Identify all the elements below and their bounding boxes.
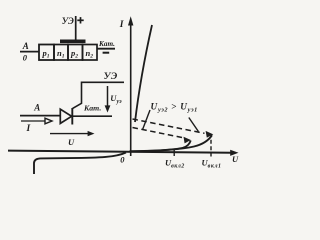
svg-text:U: U bbox=[232, 154, 239, 164]
cathode bar bbox=[71, 108, 73, 125]
tick at Uвкл2 bbox=[173, 150, 175, 156]
leader line to lower curve family bbox=[143, 110, 150, 130]
leader line to Uвкл1 knee bbox=[189, 118, 199, 132]
svg-text:А: А bbox=[22, 41, 29, 51]
p2 region box bbox=[68, 45, 83, 61]
upper dashed switching line bbox=[133, 119, 205, 133]
svg-text:I: I bbox=[119, 20, 124, 30]
svg-text:U: U bbox=[68, 137, 75, 147]
U axis bbox=[8, 151, 232, 153]
svg-text:А: А bbox=[33, 103, 40, 113]
gate wire up from bar bbox=[75, 16, 77, 41]
on-state steep line bbox=[135, 25, 152, 122]
I axis bbox=[130, 21, 132, 156]
svg-text:0: 0 bbox=[120, 154, 125, 164]
minus sign bbox=[103, 52, 110, 54]
svg-text:Кат.: Кат. bbox=[83, 104, 101, 113]
svg-text:Кат.: Кат. bbox=[98, 40, 115, 48]
gate contact bar on p2 bbox=[60, 40, 86, 44]
current arrow I bbox=[21, 120, 47, 122]
cathode wire (structure, right lead) bbox=[98, 48, 116, 50]
svg-text:I: I bbox=[26, 124, 31, 134]
gate voltage arrow Uуэ bbox=[107, 86, 109, 108]
anode wire (symbol) bbox=[20, 115, 61, 117]
gate lead (symbol) bbox=[73, 82, 124, 108]
arrowhead to Uвкл1 knee bbox=[206, 131, 214, 138]
forward blocking curve 2 (Uуэ2) bbox=[130, 141, 191, 152]
svg-text:УЭ: УЭ bbox=[104, 71, 118, 82]
dashed vertical at Uвкл1 bbox=[210, 140, 212, 157]
cathode wire (symbol) bbox=[72, 115, 112, 117]
p1 region box bbox=[39, 45, 54, 61]
svg-text:0: 0 bbox=[23, 52, 28, 62]
n2 region box bbox=[83, 45, 98, 61]
svg-text:УЭ: УЭ bbox=[62, 16, 74, 26]
reverse branch curve bbox=[34, 153, 126, 175]
plus sign bbox=[77, 17, 83, 23]
forward blocking curve 1 (Uуэ1) bbox=[130, 135, 213, 151]
arrowhead to Uвкл2 knee bbox=[184, 137, 191, 144]
lower dashed switching line bbox=[133, 128, 185, 139]
voltage arrow U (symbol) bbox=[50, 133, 90, 135]
n1 region box bbox=[54, 45, 68, 61]
anode wire (structure, left lead) bbox=[20, 51, 39, 53]
thyristor triangle bbox=[60, 109, 71, 123]
